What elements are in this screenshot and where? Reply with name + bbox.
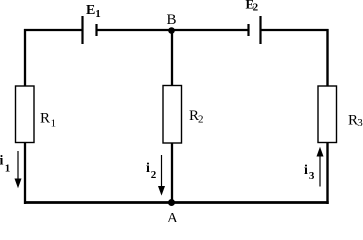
svg-text:2: 2	[253, 2, 259, 14]
current arrow i1 (down)	[17, 151, 19, 179]
battery E1 plate long	[81, 16, 83, 44]
wire middle vertical lower (R2 to A)	[171, 143, 173, 203]
svg-text:3: 3	[309, 170, 315, 182]
svg-text:B: B	[167, 12, 177, 28]
svg-text:E: E	[86, 3, 95, 18]
svg-text:i: i	[0, 153, 4, 168]
wire left vertical upper	[24, 29, 26, 87]
svg-text:3: 3	[357, 117, 363, 129]
wire right vertical upper	[326, 29, 328, 87]
svg-text:1: 1	[95, 8, 101, 20]
battery E2 plate short	[247, 24, 249, 36]
wire left vertical lower	[24, 142, 26, 204]
wire bottom horizontal	[24, 201, 329, 204]
resistor R3	[318, 86, 337, 143]
current arrow i2 (down)	[161, 155, 163, 186]
node B junction dot	[168, 27, 175, 34]
wire E2 to top-right corner	[261, 29, 329, 31]
svg-text:2: 2	[151, 169, 157, 181]
wire middle vertical upper (B to R2)	[171, 30, 173, 86]
svg-text:i: i	[304, 163, 308, 178]
svg-text:A: A	[167, 211, 178, 223]
wire top-left horizontal (left corner to E1 plate)	[24, 29, 83, 31]
svg-text:R: R	[40, 111, 50, 127]
resistor R1	[16, 86, 35, 143]
battery E1 plate short	[95, 24, 97, 36]
svg-text:i: i	[146, 161, 150, 176]
resistor R2	[163, 86, 182, 144]
current arrow i3 (up)	[319, 156, 321, 187]
wire right vertical lower	[326, 142, 328, 204]
wire E1 to node B	[97, 29, 172, 31]
node A junction dot	[168, 199, 175, 206]
battery E2 plate long	[259, 16, 261, 44]
svg-text:1: 1	[5, 162, 11, 174]
svg-text:1: 1	[51, 117, 57, 129]
svg-text:2: 2	[198, 114, 204, 126]
wire node B to E2	[172, 29, 249, 31]
